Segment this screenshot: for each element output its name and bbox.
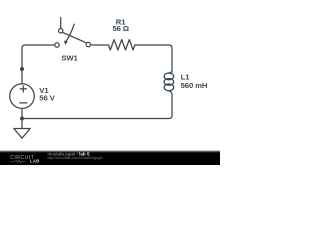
inductor L1 coil loop 2 — [164, 79, 174, 86]
svg-text:http://circuitlab.com/c/2kat64: http://circuitlab.com/c/2kat64/goglu — [48, 156, 103, 160]
switch SW1 left terminal — [55, 43, 59, 47]
svg-text:LAB: LAB — [30, 159, 40, 164]
junction dot ground — [20, 117, 24, 121]
inductor L1 coil loop 3 — [164, 84, 174, 91]
wire: switch right terminal to resistor — [91, 44, 109, 46]
footer bar — [0, 151, 220, 166]
CircuitLab logo: wave — [11, 160, 26, 163]
switch SW1 right terminal — [86, 42, 90, 46]
ground triangle — [14, 129, 30, 139]
wire: V1 bottom to ground junction — [21, 108, 23, 118]
switch SW1 blade — [63, 32, 87, 42]
inductor L1 exit hook — [169, 91, 172, 95]
V1 plus — [20, 86, 26, 92]
switch SW1 actuator arrow — [66, 24, 74, 41]
switch SW1 top terminal — [59, 29, 63, 33]
V1 source circle — [10, 84, 35, 109]
svg-text:560 mH: 560 mH — [181, 81, 208, 90]
wire: inductor bottom to bottom rail to ground junction — [22, 95, 172, 119]
resistor R1 — [109, 40, 135, 50]
switch SW1 top stub — [60, 18, 62, 29]
ground stub — [21, 119, 23, 129]
wire top-left: switch left terminal to left rail down to V1 — [22, 45, 55, 84]
junction dot top of V1 — [20, 67, 24, 71]
inductor L1 coil loop 1 — [164, 73, 174, 80]
svg-text:56 V: 56 V — [39, 93, 55, 102]
V1 minus — [20, 102, 27, 104]
inductor L1 entry hook — [169, 72, 172, 73]
svg-text:SW1: SW1 — [61, 53, 78, 62]
wire: resistor to top-right corner down to inductor — [135, 45, 172, 72]
svg-text:56 Ω: 56 Ω — [112, 24, 128, 33]
switch arrowhead — [64, 41, 68, 45]
